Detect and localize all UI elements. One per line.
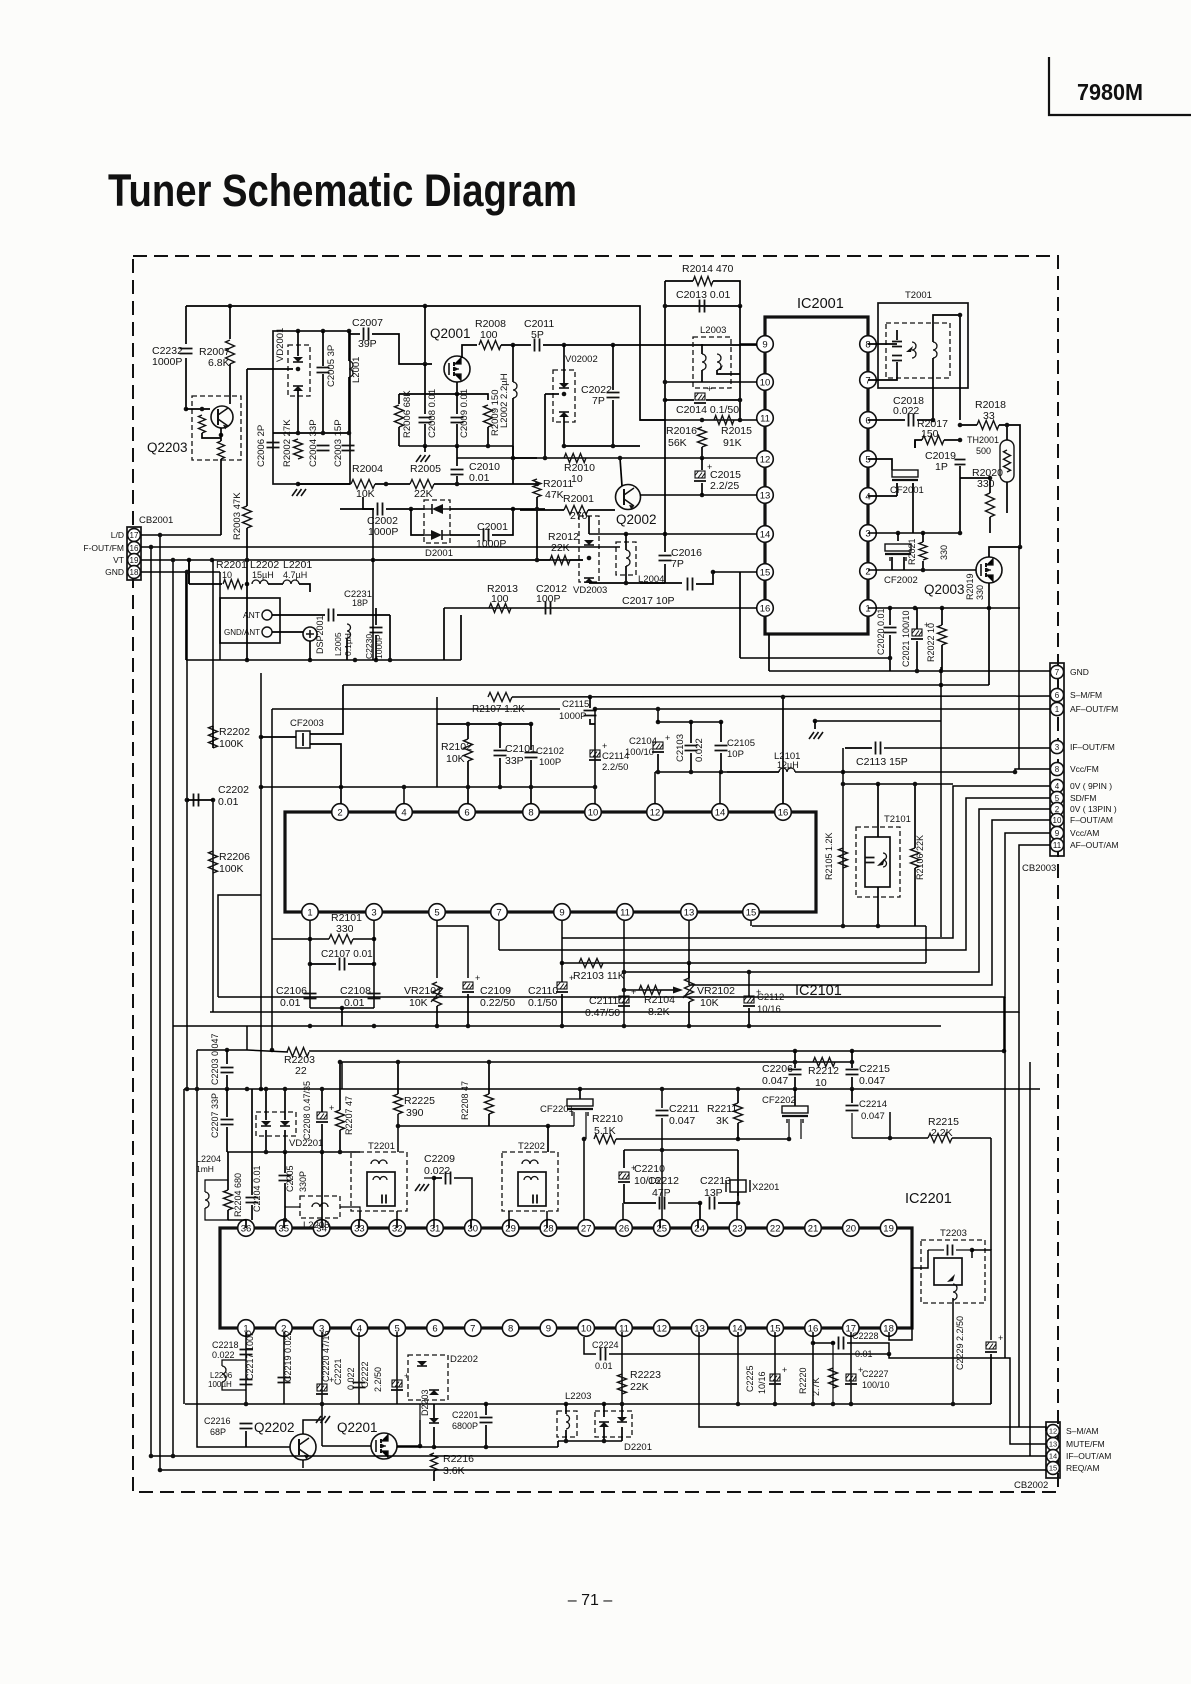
capacitor C2216 bbox=[240, 1424, 253, 1429]
svg-text:10K: 10K bbox=[409, 997, 428, 1009]
svg-text:L2206: L2206 bbox=[210, 1371, 233, 1380]
wire C2103 bottom bbox=[690, 753, 692, 772]
junction 685 x941 bbox=[939, 683, 944, 688]
wire x390 down bbox=[389, 615, 391, 660]
svg-text:2.2/50: 2.2/50 bbox=[373, 1367, 383, 1392]
IC2001 pin 7 bbox=[860, 372, 877, 389]
ceramic filter CF2003 body bbox=[296, 731, 310, 748]
wire C2113 left h bbox=[845, 747, 872, 749]
svg-text:24: 24 bbox=[694, 1223, 705, 1234]
wire C2002 feed v bbox=[363, 497, 374, 509]
capacitor C2113 bbox=[876, 742, 881, 755]
svg-text:+: + bbox=[665, 733, 670, 743]
svg-text:9: 9 bbox=[546, 1323, 551, 1334]
junction rail1026 a bbox=[308, 1024, 313, 1029]
capacitor C2220 electrolytic bbox=[316, 1375, 334, 1394]
wire L2003 primary bottom bbox=[701, 370, 703, 382]
wire frame B bbox=[271, 709, 273, 1050]
capacitor C2203 bbox=[221, 1068, 234, 1073]
wire Q2201 gate bbox=[322, 1445, 371, 1447]
wire R2011 bottom bbox=[536, 497, 538, 560]
wire gnd rail 1026 bbox=[173, 1025, 941, 1027]
svg-text:0.022: 0.022 bbox=[694, 738, 705, 762]
R2020 label bbox=[972, 467, 1003, 479]
wire pin24 stub bbox=[697, 1220, 699, 1228]
svg-text:+: + bbox=[329, 1103, 334, 1113]
svg-text:29: 29 bbox=[505, 1223, 516, 1234]
svg-text:2.2/25: 2.2/25 bbox=[710, 480, 739, 492]
C2212 label bbox=[648, 1175, 679, 1187]
svg-text:Vcc/FM: Vcc/FM bbox=[1070, 764, 1099, 774]
junction R2211 top bbox=[736, 1087, 741, 1092]
svg-text:L2005: L2005 bbox=[333, 632, 343, 656]
svg-text:47P: 47P bbox=[652, 1187, 671, 1199]
surge absorber DSP2001 bbox=[303, 627, 317, 641]
svg-text:11: 11 bbox=[620, 907, 630, 918]
svg-text:+: + bbox=[998, 1333, 1003, 1343]
wire Q2003 drain up bbox=[989, 547, 1020, 557]
junction top rail / Q2001 gate branch bbox=[423, 304, 428, 309]
wire L/D line bbox=[141, 534, 221, 536]
wire 1447 row bbox=[434, 1446, 558, 1448]
wire pin28 stub bbox=[546, 1220, 548, 1228]
resistor R2202 bbox=[209, 726, 218, 748]
resistor R2106 bbox=[911, 848, 920, 868]
R2202 label bbox=[219, 726, 250, 738]
wire L2201 to varactor line bbox=[299, 584, 310, 592]
wire ANT to C2231 bbox=[272, 614, 325, 616]
wire R2207 top bbox=[339, 1062, 341, 1110]
varactor diode VD2201a bbox=[261, 1121, 271, 1126]
svg-text:C2215: C2215 bbox=[859, 1063, 890, 1075]
R2020 value 330 bbox=[977, 478, 995, 490]
wire D2203 bottom bbox=[433, 1427, 435, 1447]
wire L2002 top bbox=[512, 345, 514, 382]
wire pin35 stub bbox=[283, 1220, 285, 1228]
C2016 value 7P bbox=[671, 558, 684, 570]
capacitor T2203 internal bbox=[948, 1245, 953, 1256]
R2012 label bbox=[548, 531, 579, 543]
wire VR2101 bottom bbox=[436, 1006, 438, 1026]
C2209 label bbox=[424, 1153, 455, 1165]
wire Q2202 bottom bbox=[302, 1460, 304, 1468]
wire T2203 cap to C2229 bbox=[972, 1250, 991, 1253]
C2210 label bbox=[634, 1163, 665, 1175]
C2108 label bbox=[340, 985, 371, 997]
capacitor C2215 bbox=[846, 1070, 859, 1075]
capacitor C2001 bbox=[484, 529, 489, 542]
wire R2210 right bbox=[616, 1138, 788, 1140]
junction 772 Vcc drop bbox=[1013, 770, 1018, 775]
wire pin5 staircase bbox=[499, 798, 1050, 950]
junction sub C2212 bbox=[660, 1148, 665, 1153]
R2206 label bbox=[219, 851, 250, 863]
junction gnd rail d bbox=[353, 658, 358, 663]
svg-text:7980M: 7980M bbox=[1077, 79, 1143, 105]
svg-text:10/16: 10/16 bbox=[757, 1004, 781, 1015]
transistor Q2003 FET bbox=[976, 557, 1002, 583]
inductor L2002 bbox=[513, 382, 517, 398]
junction D2201 bottom a bbox=[564, 1439, 569, 1444]
wire am rail 1089 bbox=[184, 1088, 1040, 1090]
wire R2014 loop right bbox=[713, 281, 740, 306]
svg-text:R2216: R2216 bbox=[443, 1453, 474, 1465]
svg-text:R2021: R2021 bbox=[907, 538, 917, 565]
IC2101 pin 6 bbox=[459, 804, 476, 821]
svg-text:0.47/50: 0.47/50 bbox=[585, 1007, 620, 1019]
ground mid bbox=[809, 732, 823, 739]
svg-text:S–M/AM: S–M/AM bbox=[1066, 1426, 1099, 1436]
svg-text:CF2001: CF2001 bbox=[890, 485, 924, 496]
CB2001 net label GND bbox=[105, 567, 124, 577]
svg-text:10: 10 bbox=[1053, 816, 1062, 825]
wire C2210 bottom bbox=[623, 1184, 625, 1203]
VR2102 value 10K bbox=[700, 997, 719, 1009]
C2110 label bbox=[528, 985, 558, 997]
svg-text:100P: 100P bbox=[536, 593, 561, 605]
CB2002 pin 12 bbox=[1047, 1425, 1060, 1438]
junction C2202 right bbox=[211, 798, 216, 803]
wire R2018 left bbox=[960, 424, 977, 426]
svg-text:C2013 0.01: C2013 0.01 bbox=[676, 289, 730, 301]
R2019 value bbox=[975, 585, 985, 600]
svg-text:1: 1 bbox=[1055, 705, 1060, 714]
junction VD2001 mid bbox=[296, 367, 301, 372]
wire C2008 bottom bbox=[424, 424, 426, 446]
R2021 label bbox=[907, 538, 917, 565]
C2225 label bbox=[745, 1365, 755, 1392]
resistor Q2203 bias bbox=[199, 415, 206, 433]
capacitor C2022 bbox=[607, 393, 620, 398]
wire R2211 bottom bbox=[737, 1123, 739, 1139]
R2211 label bbox=[707, 1103, 737, 1115]
capacitor C2230 bbox=[370, 628, 383, 633]
junction pin3 r2021 bbox=[921, 531, 926, 536]
junction tank mid C2005 bbox=[321, 431, 326, 436]
junction pin1 c2021 bbox=[913, 606, 918, 611]
svg-text:C2017 10P: C2017 10P bbox=[622, 595, 675, 607]
inductor T2001 secondary bbox=[933, 342, 937, 358]
wire R2003 bottom bbox=[246, 528, 248, 660]
svg-text:R2210: R2210 bbox=[592, 1113, 623, 1125]
C2231 label bbox=[344, 589, 372, 600]
wire C2022 bottom bbox=[612, 400, 614, 446]
svg-text:22K: 22K bbox=[414, 488, 433, 500]
wire C2016 bottom bbox=[664, 564, 666, 583]
wire C2232 branch bbox=[185, 306, 187, 344]
wire AF-OUT left seg bbox=[272, 708, 560, 710]
C2101 value 33P bbox=[505, 755, 524, 767]
wire front ground rail bbox=[186, 659, 461, 661]
wire D2201 bottom row bbox=[558, 1440, 622, 1442]
wire D2202 link bbox=[419, 1404, 421, 1420]
svg-text:C2218: C2218 bbox=[212, 1340, 239, 1350]
svg-text:2.2K: 2.2K bbox=[931, 1127, 953, 1139]
svg-text:14: 14 bbox=[760, 529, 771, 540]
capacitor C2219 bbox=[278, 1378, 291, 1383]
capacitor C2213 bbox=[710, 1197, 715, 1210]
wire L2001 top bbox=[348, 331, 350, 361]
svg-text:Q2001: Q2001 bbox=[430, 326, 471, 341]
resistor R2020 bbox=[986, 493, 995, 517]
capacitor C2214 bbox=[846, 1106, 859, 1111]
junction C2104 709 bbox=[656, 707, 661, 712]
wire R2020 bottom to pin wire bbox=[989, 517, 991, 533]
junction gate node bbox=[423, 362, 428, 367]
wire C2001 right bbox=[492, 509, 513, 535]
junction C2201 top bbox=[484, 1402, 489, 1407]
wire IC2001 gnd rail bbox=[740, 657, 890, 659]
inductor L2202 bbox=[252, 580, 268, 584]
C2007 label bbox=[352, 317, 383, 329]
inductor T2101 coil bbox=[883, 853, 887, 867]
svg-text:C2115: C2115 bbox=[562, 699, 589, 710]
C2216 label bbox=[204, 1416, 231, 1426]
svg-text:0.022: 0.022 bbox=[212, 1350, 235, 1360]
svg-text:10P: 10P bbox=[727, 749, 744, 760]
junction VT x212 bbox=[210, 558, 215, 563]
wire CF2202 stub bbox=[794, 1089, 796, 1106]
R2004 label bbox=[352, 463, 383, 475]
C2002 label bbox=[367, 515, 398, 527]
wire L2206 loop top bbox=[222, 1360, 246, 1366]
wire R2021 down bbox=[922, 561, 924, 570]
junction VT chain bbox=[187, 558, 192, 563]
wire am bottom rail 1404 bbox=[185, 1403, 991, 1405]
wire x220 gnd drop bbox=[219, 572, 221, 660]
R2002 label 27K bbox=[282, 419, 293, 467]
R2019 label bbox=[965, 573, 975, 600]
wire R2216 bottom bbox=[433, 1471, 435, 1481]
svg-text:4: 4 bbox=[401, 807, 406, 818]
wire C2107 left h bbox=[310, 963, 336, 965]
R2101 label bbox=[331, 912, 362, 924]
wire CF2002 leg b bbox=[903, 557, 905, 570]
IC2201 pin 16 bbox=[805, 1320, 822, 1337]
junction rail1026 e bbox=[560, 1024, 565, 1029]
resistor R2004 bbox=[351, 480, 375, 489]
wire ic2001 left bottom bbox=[768, 634, 770, 671]
capacitor C2229 electrolytic bbox=[985, 1333, 1003, 1352]
inductor T2001 primary bbox=[912, 342, 916, 358]
wire C2205 top bbox=[284, 1152, 286, 1173]
junction C2215 top bbox=[850, 1049, 855, 1054]
junction R2020 top bbox=[988, 476, 993, 481]
R2017 label bbox=[917, 418, 948, 430]
svg-text:100/10: 100/10 bbox=[625, 747, 654, 758]
T2201 reference label bbox=[368, 1141, 395, 1152]
resistor R2206 bbox=[209, 851, 218, 873]
R2203 label bbox=[284, 1054, 315, 1066]
wire C2107 right h bbox=[348, 963, 374, 965]
svg-text:390: 390 bbox=[406, 1107, 424, 1119]
IC2101 pin 10 bbox=[585, 804, 602, 821]
svg-text:R2211: R2211 bbox=[707, 1103, 737, 1115]
junction U-loop left bbox=[813, 719, 818, 724]
junction C2010 node bbox=[455, 482, 460, 487]
wire VR2102 top bbox=[688, 963, 690, 978]
IC2201 pin 33 bbox=[351, 1220, 368, 1237]
wire C2231 to L2005 bbox=[337, 614, 390, 616]
svg-text:D2203: D2203 bbox=[420, 1389, 430, 1416]
wire CF2001 left leg bbox=[896, 483, 898, 496]
wire R2101 row bbox=[272, 938, 329, 940]
svg-text:91K: 91K bbox=[723, 437, 742, 449]
wire pin2 drop bbox=[283, 1332, 285, 1404]
C2022 label bbox=[581, 384, 612, 396]
svg-text:1: 1 bbox=[307, 907, 312, 918]
svg-text:22K: 22K bbox=[630, 1381, 649, 1393]
junction row722 C2105 bbox=[719, 720, 724, 725]
IC2101 pin 9 bbox=[554, 904, 571, 921]
capacitor C2012 bbox=[546, 602, 551, 615]
wire C2011 to pin9 line bbox=[543, 344, 757, 346]
wire pin16 up bbox=[782, 697, 784, 804]
wire 1062 bus bbox=[341, 1062, 343, 1089]
diode D2001 dashed box bbox=[424, 500, 450, 543]
junction R2225 top bbox=[396, 1060, 401, 1065]
wire ANT gnd bbox=[272, 631, 303, 633]
R2015 label2 bbox=[721, 425, 752, 437]
junction R2016 top bbox=[700, 418, 705, 423]
svg-text:R2223: R2223 bbox=[630, 1369, 661, 1381]
C2218 value 0.022 bbox=[212, 1350, 235, 1360]
C2021 label bbox=[901, 610, 911, 667]
capacitor C2221 bbox=[353, 1383, 366, 1388]
T2203 inner box bbox=[934, 1258, 962, 1285]
C2215 label bbox=[859, 1063, 890, 1075]
svg-text:9: 9 bbox=[559, 907, 564, 918]
svg-text:22: 22 bbox=[295, 1065, 307, 1077]
svg-text:C2014 0.1/50: C2014 0.1/50 bbox=[676, 404, 739, 416]
wire x213 upper bbox=[212, 560, 214, 726]
wire R2005 right bbox=[434, 483, 537, 485]
wire R2022 top bbox=[941, 608, 943, 625]
junction C2013 left bbox=[663, 304, 668, 309]
junction vd2002 bottom bbox=[562, 444, 567, 449]
wire VR2102 bottom bbox=[688, 1002, 690, 1026]
wire C2209 right bbox=[454, 1178, 472, 1220]
wire C2019 bottom bbox=[959, 466, 961, 533]
wire gnd line to CB2003 pin7 bbox=[769, 670, 1050, 672]
svg-text:330: 330 bbox=[336, 923, 354, 935]
svg-text:R2005: R2005 bbox=[410, 463, 441, 475]
wire 685 line bbox=[343, 684, 989, 686]
page number -71- bbox=[568, 1592, 613, 1609]
svg-text:R2102: R2102 bbox=[441, 741, 472, 753]
R2012 value 22K bbox=[551, 542, 570, 554]
wire VD2002 tuning feed bbox=[544, 394, 546, 458]
wire L2203 bottom bbox=[565, 1430, 567, 1441]
junction R2223 rail bbox=[620, 1402, 625, 1407]
diode D2201 dashed box bbox=[595, 1411, 632, 1437]
wire x444 drop bbox=[443, 608, 445, 660]
junction CF2202 1139 bbox=[787, 1137, 792, 1142]
junction D2203 Q2201 bbox=[432, 1445, 437, 1450]
wire sub right bbox=[737, 1150, 739, 1196]
junction VT x373 bbox=[371, 558, 376, 563]
wire R2203 right bbox=[309, 1050, 1004, 1052]
junction tank top C2005 bbox=[321, 329, 326, 334]
resistor R2001 bbox=[564, 506, 588, 515]
wire R2208 top bbox=[488, 1062, 490, 1094]
svg-text:C2212: C2212 bbox=[648, 1175, 679, 1187]
svg-text:IF–OUT/AM: IF–OUT/AM bbox=[1066, 1451, 1111, 1461]
resistor R2208 bbox=[485, 1094, 494, 1114]
wire pin16 line bbox=[444, 607, 757, 609]
IC2201 pin 14 bbox=[729, 1320, 746, 1337]
IC2001 pin 11 bbox=[757, 410, 774, 427]
varactor diode VD2003b bbox=[584, 578, 594, 583]
varactor diode VD2001b bbox=[293, 386, 303, 391]
R2011 value 47K bbox=[545, 489, 564, 501]
svg-text:C2001: C2001 bbox=[477, 521, 508, 533]
wire L2003 secondary tap bbox=[717, 370, 740, 374]
R2022 label bbox=[926, 623, 936, 662]
T2001 arrow bbox=[906, 346, 913, 352]
junction C2107 right bbox=[372, 962, 377, 967]
transistor Q2201 FET bbox=[371, 1433, 397, 1459]
wire 963 riser bbox=[925, 926, 927, 963]
wire pin5 branch bbox=[437, 926, 468, 978]
wire pin2 line bbox=[868, 569, 976, 571]
wire T2001 right down bbox=[959, 315, 961, 420]
svg-text:C2208 0.47/35: C2208 0.47/35 bbox=[302, 1081, 312, 1140]
wire Q2001 drain to R2008 bbox=[462, 345, 477, 358]
svg-text:100: 100 bbox=[491, 593, 509, 605]
svg-text:12: 12 bbox=[650, 807, 661, 818]
junction C2227 rail bbox=[849, 1402, 854, 1407]
junction x187 gnd tap bbox=[185, 570, 190, 575]
C2104 label bbox=[629, 736, 657, 747]
L2003 arrow bbox=[717, 365, 723, 370]
connector CB2003 body bbox=[1050, 663, 1064, 856]
varactor diode VD2003a bbox=[584, 540, 594, 545]
svg-text:10K: 10K bbox=[446, 753, 465, 765]
junction c2022 bottom bbox=[611, 444, 616, 449]
wire R2208 bottom bbox=[488, 1114, 490, 1126]
CB2003 pin 6 bbox=[1050, 688, 1063, 701]
R2215 label bbox=[928, 1116, 959, 1128]
wire VD2201a bottom bbox=[265, 1130, 267, 1152]
svg-text:0.01: 0.01 bbox=[344, 997, 365, 1009]
IC2101 pin 11 bbox=[617, 904, 634, 921]
wire pin11 stub bbox=[623, 921, 625, 1026]
resistor R2011 bbox=[533, 479, 541, 497]
svg-text:7P: 7P bbox=[592, 395, 605, 407]
svg-text:5P: 5P bbox=[531, 329, 544, 341]
T2101 inner box bbox=[865, 837, 890, 887]
IC2201 pin 11 bbox=[616, 1320, 633, 1337]
junction am rail x247 bbox=[245, 1087, 250, 1092]
inductor T2203 coil bbox=[953, 1284, 957, 1300]
wire pin4 riser bbox=[403, 787, 405, 804]
L2205 reference label bbox=[303, 1220, 329, 1231]
wire pin18 link bbox=[889, 1268, 912, 1340]
R2008 value 100 bbox=[480, 329, 498, 341]
svg-text:10: 10 bbox=[760, 377, 771, 388]
svg-text:Q2201: Q2201 bbox=[337, 1420, 378, 1435]
svg-text:CF2002: CF2002 bbox=[884, 575, 918, 586]
wire pin3 down bbox=[373, 921, 375, 1008]
transistor Q2002 bbox=[616, 485, 641, 510]
wire R2018 right bbox=[999, 425, 1020, 547]
transformer T2101 dashed box bbox=[856, 827, 900, 897]
svg-text:11: 11 bbox=[1053, 841, 1062, 850]
wire C2110 bottom bbox=[561, 994, 563, 1026]
junction C2206 1062 bbox=[793, 1060, 798, 1065]
wire pin8 to T2001 bbox=[868, 343, 897, 345]
